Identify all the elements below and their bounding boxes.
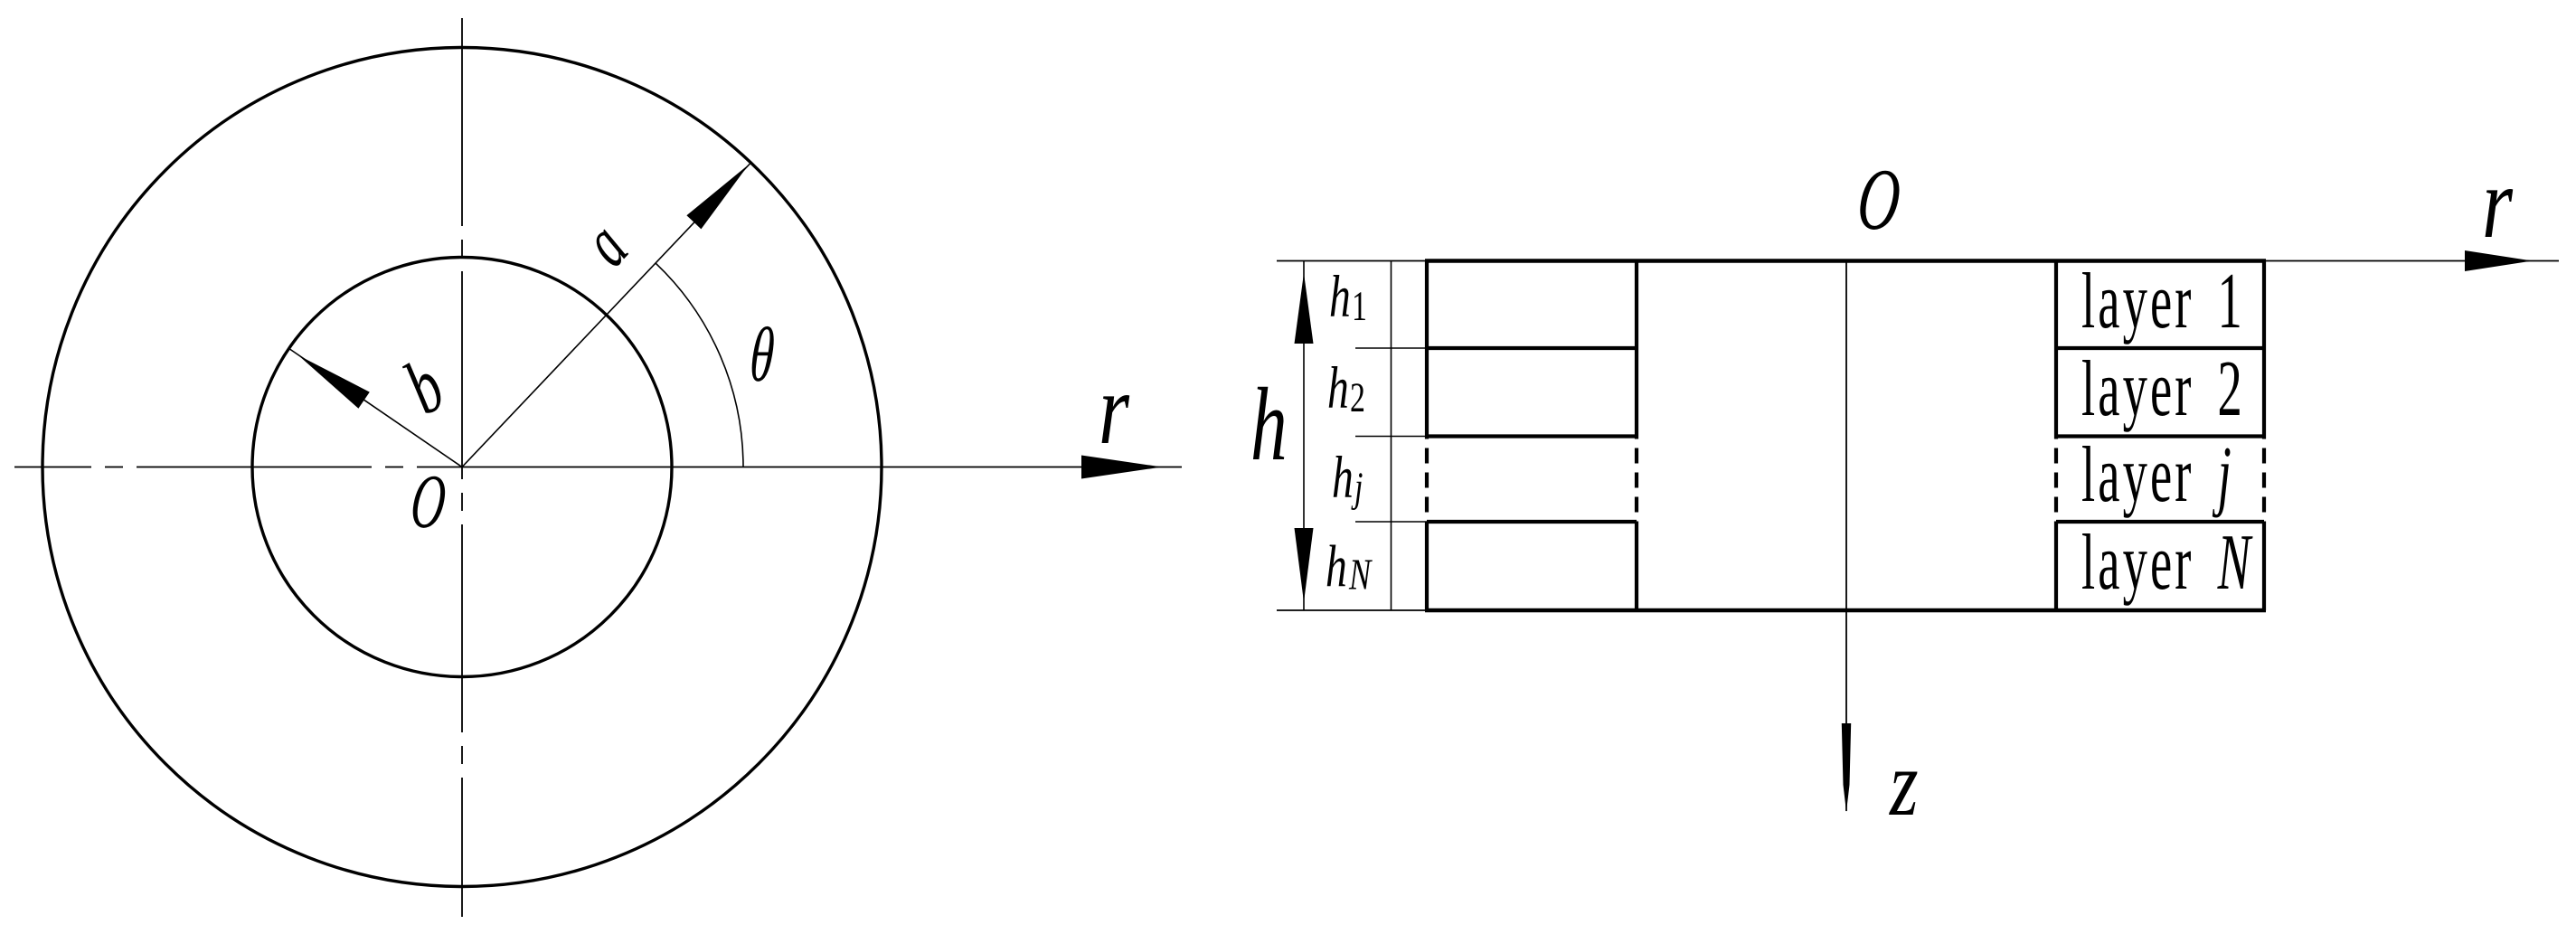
layer2/layerj boundary left column	[1427, 434, 1637, 438]
label column separator line	[1391, 261, 1392, 611]
layer1/layer2 boundary right column	[2056, 346, 2264, 350]
layer2/layerj boundary right column	[2056, 434, 2264, 438]
vertical centerline (dash-dot)	[461, 18, 463, 917]
svg-text:layer 1: layer 1	[2081, 257, 2245, 344]
label hN	[1326, 534, 1373, 599]
angle arc theta	[656, 263, 743, 467]
z axis line	[1845, 261, 1847, 812]
radius line b (145.6 deg)	[289, 348, 463, 467]
r axis line (right figure)	[1277, 260, 2559, 262]
radius line a (46.5 deg)	[462, 163, 750, 467]
label h1	[1329, 265, 1367, 330]
r axis arrowhead (right figure)	[2465, 250, 2533, 271]
layerj/layerN boundary right column	[2056, 520, 2264, 524]
r axis arrowhead (left figure)	[1081, 456, 1162, 479]
bottom extension line	[1277, 609, 1427, 611]
layer-box left vertical (solid above layer j)	[2054, 261, 2058, 437]
outer circle (radius a)	[42, 48, 882, 887]
plate left edge (dashed at layer j)	[1425, 437, 1429, 523]
plate left edge (solid above layer j)	[1425, 261, 1429, 437]
inner left vertical (dashed at layer j)	[1635, 437, 1638, 523]
h2/hj extension tick	[1355, 436, 1427, 438]
inner left vertical (solid below layer j)	[1635, 522, 1638, 610]
label h2	[1327, 356, 1365, 421]
svg-text:h: h	[1326, 534, 1347, 599]
plate right edge (solid below layer j)	[2262, 522, 2266, 610]
svg-text:h: h	[1332, 446, 1354, 511]
svg-text:2: 2	[1350, 374, 1365, 421]
plate left edge (solid below layer j)	[1425, 522, 1429, 610]
r axis line (left figure)	[457, 467, 1182, 468]
svg-text:layer j: layer j	[2081, 430, 2234, 518]
h dimension arrow down	[1295, 528, 1314, 602]
layer-box left vertical (solid below layer j)	[2054, 522, 2058, 610]
z axis arrowhead	[1842, 723, 1851, 812]
h dimension arrow up	[1295, 273, 1314, 344]
svg-text:h: h	[1329, 265, 1351, 330]
svg-text:r: r	[1099, 354, 1130, 466]
svg-text:r: r	[2482, 147, 2514, 259]
h dimension line	[1303, 261, 1305, 611]
plate right edge (dashed at layer j)	[2262, 437, 2266, 523]
layer1/layer2 boundary left column	[1427, 346, 1637, 350]
inner left vertical (solid above layer j)	[1635, 261, 1638, 437]
svg-text:h: h	[1327, 356, 1349, 421]
arrowhead of radius b	[298, 355, 370, 409]
hj/hN extension tick	[1355, 521, 1427, 523]
svg-text:z: z	[1888, 732, 1918, 836]
svg-text:h: h	[1250, 366, 1288, 483]
plate top edge	[1425, 259, 2266, 262]
horizontal centerline (dash-dot, left of center)	[14, 467, 457, 468]
h1/h2 extension tick	[1355, 347, 1427, 349]
plate bottom edge	[1425, 609, 2266, 612]
arrowhead of radius a	[686, 165, 749, 229]
label hj	[1332, 446, 1363, 511]
svg-text:layer N: layer N	[2081, 518, 2253, 606]
plate right edge (solid above layer j)	[2262, 261, 2266, 437]
layerj/layerN boundary left column	[1427, 520, 1637, 524]
inner circle (radius b)	[252, 258, 672, 677]
svg-text:1: 1	[1352, 283, 1367, 330]
svg-text:layer 2: layer 2	[2081, 344, 2245, 432]
svg-text:N: N	[1348, 551, 1373, 599]
layer-box left vertical (dashed at layer j)	[2054, 437, 2058, 523]
